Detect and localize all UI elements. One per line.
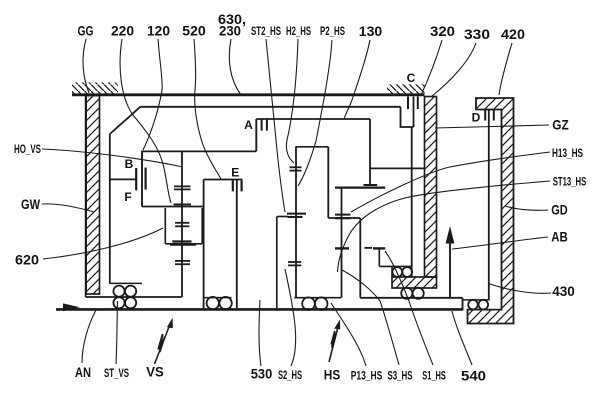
svg-text:H13_HS: H13_HS (552, 148, 583, 160)
svg-text:520: 520 (182, 24, 206, 39)
svg-text:ST_VS: ST_VS (104, 368, 129, 380)
svg-text:F: F (124, 190, 131, 204)
svg-text:HS: HS (324, 368, 341, 383)
svg-text:VS: VS (146, 365, 164, 380)
svg-text:B: B (125, 157, 134, 171)
svg-text:HO_VS: HO_VS (14, 144, 41, 156)
svg-text:430: 430 (552, 284, 575, 299)
svg-text:540: 540 (461, 369, 486, 384)
svg-text:P2_HS: P2_HS (320, 26, 345, 38)
svg-text:A: A (244, 118, 253, 132)
svg-text:H2_HS: H2_HS (286, 26, 311, 38)
svg-text:ST13_HS: ST13_HS (553, 177, 587, 189)
svg-text:420: 420 (501, 27, 525, 42)
svg-text:230: 230 (219, 24, 241, 39)
svg-text:220: 220 (111, 24, 134, 39)
svg-text:P13_HS: P13_HS (351, 371, 383, 383)
svg-text:GZ: GZ (552, 118, 569, 133)
svg-text:C: C (407, 71, 416, 85)
svg-text:S2_HS: S2_HS (278, 370, 302, 382)
svg-text:GW: GW (21, 197, 40, 212)
svg-text:530: 530 (251, 367, 273, 382)
svg-text:GG: GG (78, 24, 94, 39)
svg-text:S3_HS: S3_HS (388, 371, 413, 383)
svg-text:320: 320 (430, 24, 455, 39)
svg-text:S1_HS: S1_HS (422, 371, 446, 383)
svg-text:AN: AN (75, 365, 91, 380)
svg-text:620: 620 (15, 253, 39, 268)
svg-text:330: 330 (464, 27, 490, 42)
svg-text:D: D (472, 111, 481, 125)
svg-text:E: E (231, 166, 239, 180)
svg-text:ST2_HS: ST2_HS (251, 26, 281, 38)
svg-text:GD: GD (551, 203, 568, 218)
svg-text:AB: AB (551, 230, 568, 245)
svg-text:120: 120 (147, 24, 170, 39)
svg-text:130: 130 (359, 24, 383, 39)
